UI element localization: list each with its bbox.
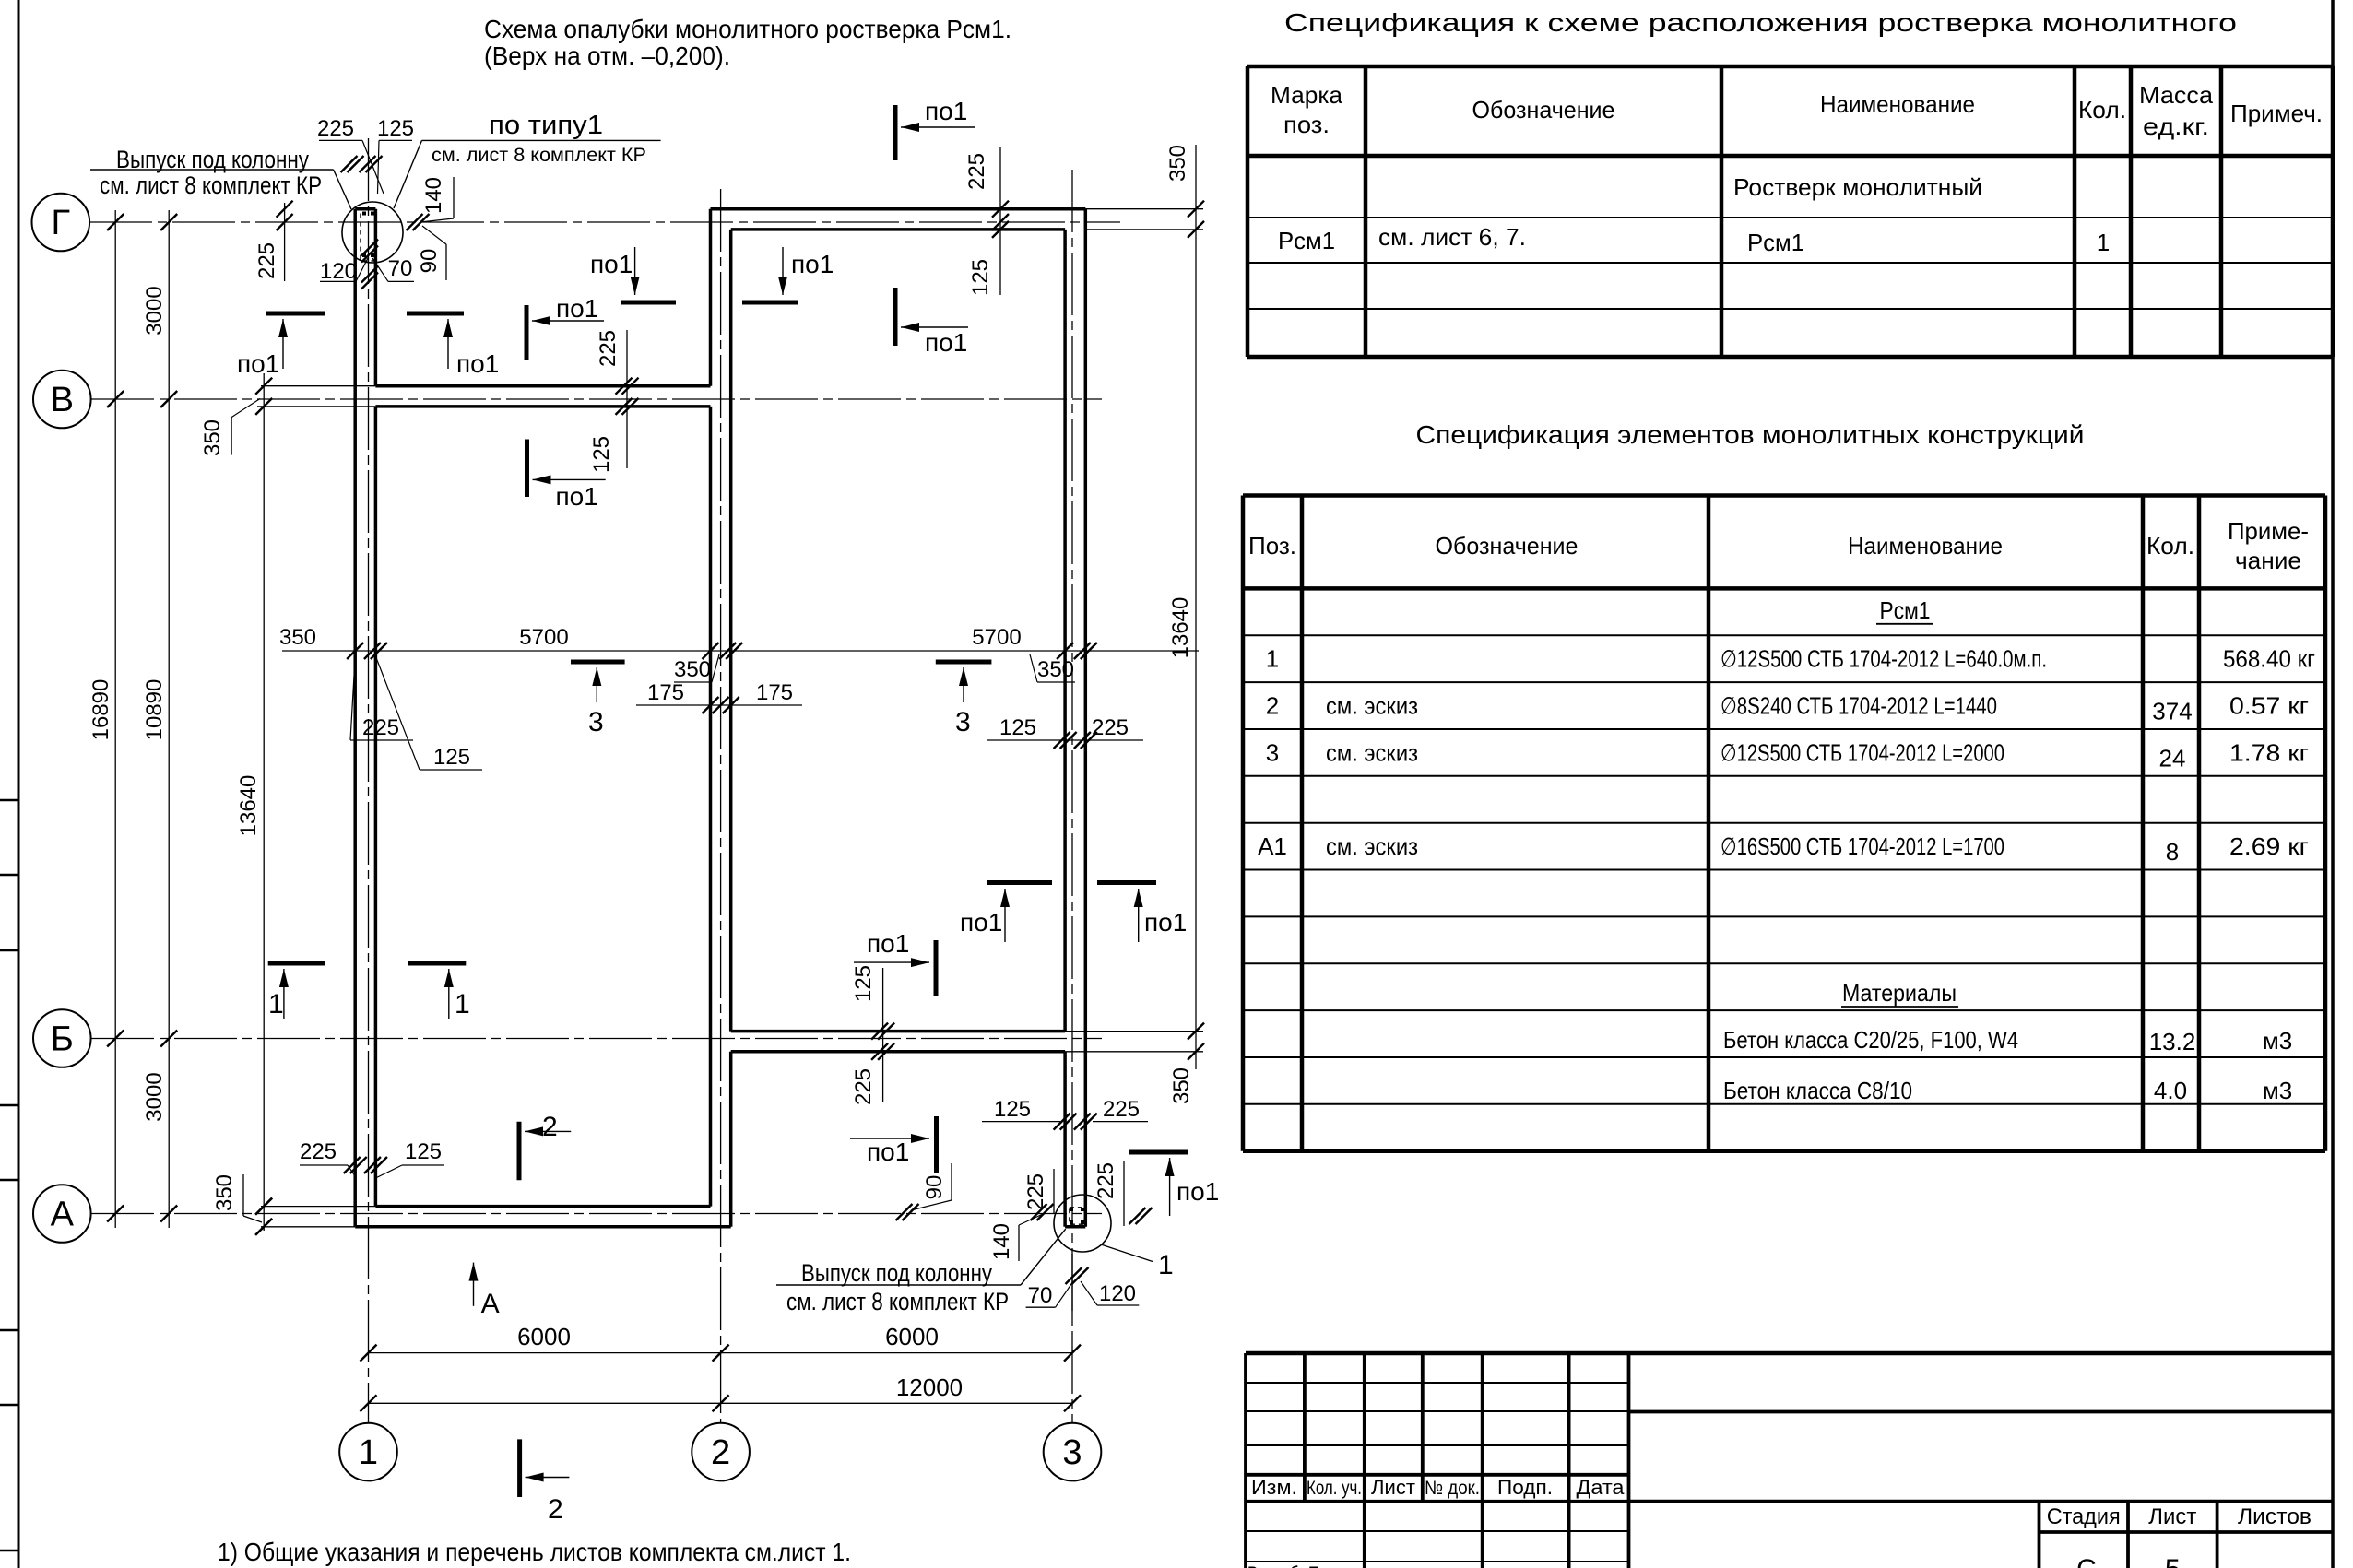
svg-text:Выпуск под колонну: Выпуск под колонну xyxy=(801,1259,992,1287)
svg-text:по1: по1 xyxy=(791,250,834,278)
svg-text:по1: по1 xyxy=(590,250,633,278)
svg-text:3: 3 xyxy=(955,707,971,737)
svg-text:2: 2 xyxy=(542,1112,558,1142)
svg-text:2: 2 xyxy=(548,1494,563,1525)
svg-text:125: 125 xyxy=(999,715,1036,740)
svg-text:по1: по1 xyxy=(1176,1177,1219,1206)
svg-text:225: 225 xyxy=(1094,1162,1118,1199)
svg-text:374: 374 xyxy=(2152,698,2192,725)
svg-text:Спецификация элементов монолит: Спецификация элементов монолитных констр… xyxy=(1416,420,2085,449)
svg-text:225: 225 xyxy=(254,242,279,279)
svg-text:568.40 кг: 568.40 кг xyxy=(2223,645,2315,673)
svg-text:13.2: 13.2 xyxy=(2149,1028,2196,1055)
svg-text:5700: 5700 xyxy=(519,625,568,650)
svg-text:Кол. уч.: Кол. уч. xyxy=(1307,1478,1362,1499)
svg-text:125: 125 xyxy=(405,1139,442,1164)
svg-text:125: 125 xyxy=(968,259,993,296)
svg-text:12000: 12000 xyxy=(896,1373,963,1401)
svg-text:2.69 кг: 2.69 кг xyxy=(2229,832,2309,860)
svg-text:поз.: поз. xyxy=(1283,111,1330,138)
svg-text:Наименование: Наименование xyxy=(1848,532,2003,560)
svg-text:125: 125 xyxy=(851,965,876,1002)
svg-text:Приме-: Приме- xyxy=(2228,517,2309,545)
svg-text:Спецификация к схеме расположе: Спецификация к схеме расположения ростве… xyxy=(1284,8,2237,37)
svg-text:120: 120 xyxy=(320,259,357,284)
svg-text:по1: по1 xyxy=(456,349,499,378)
svg-text:см. эскиз: см. эскиз xyxy=(1326,832,1418,860)
svg-text:А: А xyxy=(481,1289,500,1319)
svg-text:350: 350 xyxy=(1169,1067,1194,1104)
svg-text:Кол.: Кол. xyxy=(2078,96,2126,124)
svg-text:1: 1 xyxy=(359,1433,378,1472)
svg-text:125: 125 xyxy=(994,1097,1031,1122)
svg-text:2: 2 xyxy=(711,1433,730,1472)
svg-text:Провер.: Провер. xyxy=(1308,1563,1364,1568)
svg-text:1: 1 xyxy=(1158,1250,1174,1280)
svg-text:350: 350 xyxy=(674,657,711,682)
svg-text:м3: м3 xyxy=(2263,1027,2292,1055)
svg-text:Рсм1: Рсм1 xyxy=(1278,227,1335,254)
svg-text:∅8S240 СТБ 1704-2012 L=1440: ∅8S240 СТБ 1704-2012 L=1440 xyxy=(1720,692,1997,720)
svg-text:Ростверк монолитный: Ростверк монолитный xyxy=(1733,173,1982,201)
svg-text:3000: 3000 xyxy=(142,286,167,335)
svg-text:Лист: Лист xyxy=(1371,1476,1415,1499)
svg-text:(Верх на отм. –0,200).: (Верх на отм. –0,200). xyxy=(484,41,730,70)
svg-text:4.0: 4.0 xyxy=(2154,1077,2187,1104)
svg-text:5: 5 xyxy=(2165,1554,2181,1568)
svg-text:Марка: Марка xyxy=(1271,81,1343,109)
svg-text:по1: по1 xyxy=(960,908,1002,937)
svg-text:по1: по1 xyxy=(925,328,967,357)
svg-text:Рсм1: Рсм1 xyxy=(1880,596,1931,624)
svg-text:13640: 13640 xyxy=(1168,597,1193,659)
svg-text:350: 350 xyxy=(200,419,225,456)
svg-text:по типу1: по типу1 xyxy=(489,111,603,140)
svg-text:по1: по1 xyxy=(556,482,598,511)
svg-text:175: 175 xyxy=(756,680,793,705)
svg-text:см. лист 8 комплект КР: см. лист 8 комплект КР xyxy=(432,145,646,166)
svg-text:90: 90 xyxy=(922,1175,947,1200)
svg-text:Дата: Дата xyxy=(1577,1476,1626,1499)
svg-text:Масса: Масса xyxy=(2139,81,2214,109)
svg-text:3: 3 xyxy=(1062,1433,1082,1472)
svg-text:225: 225 xyxy=(317,116,354,141)
svg-text:Стадия: Стадия xyxy=(2047,1504,2121,1529)
svg-text:см. эскиз: см. эскиз xyxy=(1326,738,1418,766)
svg-text:140: 140 xyxy=(421,177,446,214)
svg-text:∅12S500 СТБ 1704-2012 L=2000: ∅12S500 СТБ 1704-2012 L=2000 xyxy=(1720,738,2004,766)
svg-text:70: 70 xyxy=(1028,1283,1053,1308)
svg-text:Обозначение: Обозначение xyxy=(1472,96,1615,124)
svg-text:см. лист 8 комплект КР: см. лист 8 комплект КР xyxy=(786,1288,1009,1315)
svg-text:Обозначение: Обозначение xyxy=(1436,532,1579,560)
svg-text:Лист: Лист xyxy=(2148,1504,2196,1529)
svg-text:Подп.: Подп. xyxy=(1497,1476,1553,1499)
svg-text:1: 1 xyxy=(268,989,284,1020)
svg-text:Схема опалубки монолитного рос: Схема опалубки монолитного ростверка Рсм… xyxy=(484,15,1011,43)
svg-text:по1: по1 xyxy=(867,929,909,958)
svg-text:см. лист 6, 7.: см. лист 6, 7. xyxy=(1378,223,1526,251)
svg-text:8: 8 xyxy=(2166,838,2179,866)
svg-text:по1: по1 xyxy=(1144,908,1187,937)
svg-text:90: 90 xyxy=(417,249,442,274)
svg-text:∅12S500 СТБ 1704-2012 L=640.0м: ∅12S500 СТБ 1704-2012 L=640.0м.п. xyxy=(1720,645,2047,673)
svg-text:3: 3 xyxy=(588,707,604,737)
svg-text:225: 225 xyxy=(362,715,399,740)
svg-text:10890: 10890 xyxy=(142,679,167,741)
svg-text:6000: 6000 xyxy=(885,1323,939,1350)
svg-text:∅16S500 СТБ 1704-2012 L=1700: ∅16S500 СТБ 1704-2012 L=1700 xyxy=(1720,832,2004,860)
svg-text:16890: 16890 xyxy=(89,679,113,741)
svg-text:№ док.: № док. xyxy=(1425,1478,1480,1499)
svg-text:Бетон класса С8/10: Бетон класса С8/10 xyxy=(1723,1077,1912,1104)
svg-text:125: 125 xyxy=(433,745,470,770)
svg-text:225: 225 xyxy=(1092,715,1129,740)
svg-text:см. лист 8 комплект КР: см. лист 8 комплект КР xyxy=(100,171,322,199)
svg-text:Б: Б xyxy=(51,1020,74,1059)
svg-text:С: С xyxy=(2076,1554,2097,1568)
svg-text:3000: 3000 xyxy=(142,1072,167,1121)
svg-text:А: А xyxy=(51,1196,75,1234)
svg-text:350: 350 xyxy=(1165,145,1190,182)
svg-text:Примеч.: Примеч. xyxy=(2230,100,2323,127)
svg-text:140: 140 xyxy=(989,1223,1014,1260)
svg-text:125: 125 xyxy=(377,116,414,141)
svg-text:24: 24 xyxy=(2159,744,2186,772)
svg-text:м3: м3 xyxy=(2263,1077,2292,1104)
svg-text:1: 1 xyxy=(1266,645,1279,673)
svg-text:70: 70 xyxy=(388,256,413,281)
svg-text:В: В xyxy=(51,381,74,419)
svg-text:Изм.: Изм. xyxy=(1251,1476,1297,1499)
svg-text:см. эскиз: см. эскиз xyxy=(1326,692,1418,720)
svg-text:3: 3 xyxy=(1266,738,1279,766)
svg-text:Материалы: Материалы xyxy=(1842,979,1957,1007)
svg-text:1: 1 xyxy=(2097,229,2110,256)
svg-text:1.78 кг: 1.78 кг xyxy=(2229,738,2309,766)
svg-text:по1: по1 xyxy=(556,294,598,323)
svg-text:Г: Г xyxy=(52,204,71,242)
svg-text:225: 225 xyxy=(1103,1097,1140,1122)
svg-text:Кол.: Кол. xyxy=(2146,532,2194,560)
svg-text:Поз.: Поз. xyxy=(1248,532,1296,560)
svg-text:по1: по1 xyxy=(867,1138,909,1166)
svg-text:225: 225 xyxy=(851,1068,876,1105)
svg-text:ед.кг.: ед.кг. xyxy=(2143,112,2209,140)
svg-text:А1: А1 xyxy=(1258,832,1287,860)
svg-text:225: 225 xyxy=(964,153,989,190)
svg-text:350: 350 xyxy=(1037,657,1074,682)
svg-text:125: 125 xyxy=(589,436,614,473)
svg-text:Наименование: Наименование xyxy=(1820,90,1975,118)
svg-text:Листов: Листов xyxy=(2238,1504,2312,1529)
svg-text:Бетон класса С20/25, F100, W4: Бетон класса С20/25, F100, W4 xyxy=(1723,1026,2018,1054)
svg-text:чание: чание xyxy=(2235,547,2301,574)
svg-text:1) Общие указания и перечень л: 1) Общие указания и перечень листов комп… xyxy=(218,1538,851,1566)
svg-text:Разраб.: Разраб. xyxy=(1247,1563,1303,1568)
svg-text:5700: 5700 xyxy=(972,625,1021,650)
svg-text:по1: по1 xyxy=(237,349,279,378)
svg-text:225: 225 xyxy=(596,330,621,367)
svg-text:350: 350 xyxy=(279,625,316,650)
svg-text:1: 1 xyxy=(455,989,470,1020)
svg-text:Рсм1: Рсм1 xyxy=(1747,229,1804,256)
svg-text:13640: 13640 xyxy=(236,775,261,837)
svg-text:350: 350 xyxy=(212,1174,237,1211)
svg-text:по1: по1 xyxy=(925,97,967,125)
svg-text:6000: 6000 xyxy=(517,1323,571,1350)
svg-text:225: 225 xyxy=(300,1139,337,1164)
svg-text:2: 2 xyxy=(1266,692,1279,720)
svg-text:175: 175 xyxy=(647,680,684,705)
svg-text:0.57 кг: 0.57 кг xyxy=(2229,692,2309,720)
svg-text:120: 120 xyxy=(1099,1281,1136,1306)
